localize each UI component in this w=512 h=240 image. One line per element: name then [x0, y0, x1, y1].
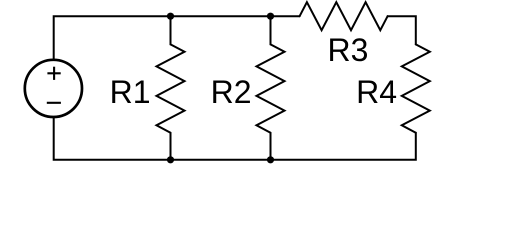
minus sign [47, 102, 61, 104]
voltage source V1 [25, 60, 82, 117]
wire top: node A to node B [171, 15, 271, 17]
wire: R3 right to top-right corner [388, 16, 416, 44]
wire: node A to R1 top [170, 16, 172, 44]
wire bottom: node D to node C [171, 159, 271, 161]
resistor R1 [157, 44, 185, 132]
svg-text:R2: R2 [211, 74, 252, 110]
wire: R2 bottom to node D [270, 133, 272, 160]
resistor R3 [300, 2, 388, 30]
node A (junction dot) [167, 13, 174, 20]
wire: node B to R2 top [270, 16, 272, 44]
wire: node B to R3 left [271, 15, 300, 17]
svg-text:R1: R1 [110, 74, 151, 110]
plus sign [47, 67, 60, 80]
resistor R4 [402, 44, 430, 132]
node C (junction dot) [167, 156, 174, 163]
wire: R4 bottom to bottom-right [271, 133, 416, 160]
svg-text:R3: R3 [328, 32, 369, 68]
wire bottom-left: node C to source bottom [54, 117, 171, 160]
node B (junction dot) [267, 13, 274, 20]
svg-text:R4: R4 [356, 74, 397, 110]
resistor R2 [257, 44, 285, 132]
node D (junction dot) [267, 156, 274, 163]
wire: R1 bottom to node C [170, 133, 172, 160]
wire top-left: source top to node A [54, 16, 171, 60]
